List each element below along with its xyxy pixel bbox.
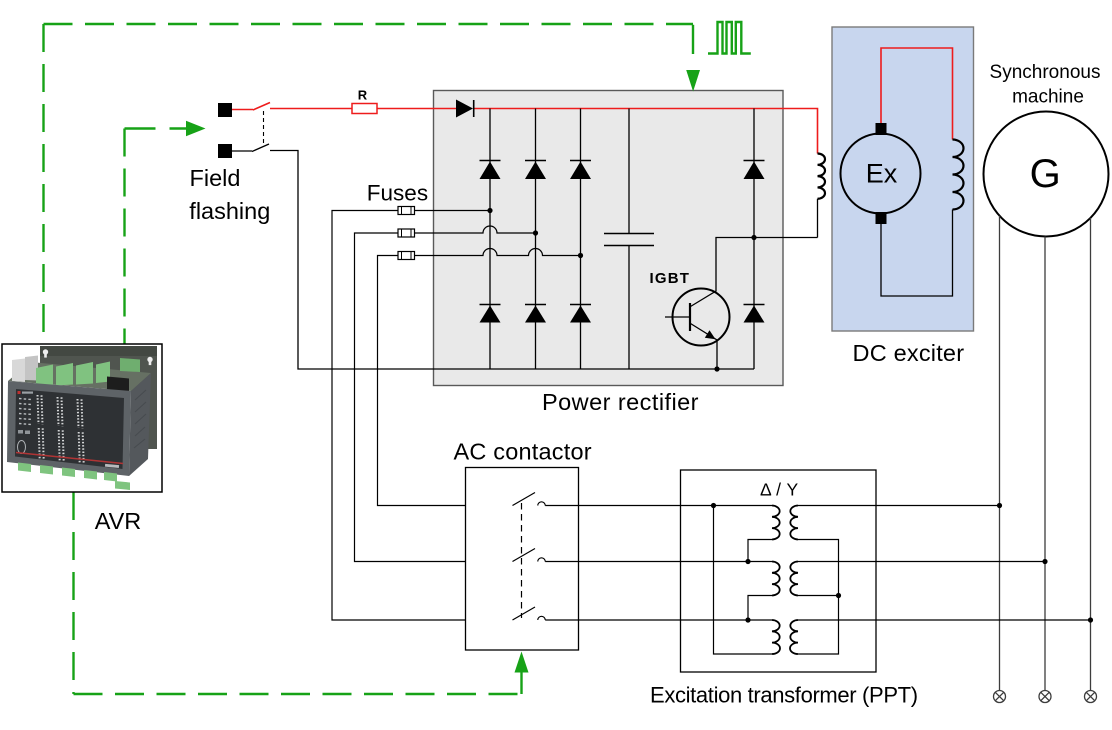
fuse 2 wire left down to contactor <box>355 233 513 562</box>
diode D0 on red bus <box>456 100 473 118</box>
generator G <box>984 112 1109 237</box>
rectifier leg 3 <box>580 109 582 370</box>
svg-text:Fuses: Fuses <box>367 181 428 206</box>
phase 3 wire <box>545 619 772 621</box>
node dot leg3 <box>578 253 583 258</box>
switch link dashed <box>263 111 265 143</box>
svg-text:Ex: Ex <box>866 159 898 189</box>
exciter machine Ex <box>841 134 921 214</box>
AVR device image <box>7 346 157 490</box>
node dot delta B <box>745 559 750 564</box>
red bus across rectifier to exciter coil <box>473 109 818 154</box>
svg-text:G: G <box>1030 152 1061 196</box>
fuse 3 wire right with hops <box>415 249 581 256</box>
phase 1 wire contactor to transformer <box>545 505 772 507</box>
leg1 bottom diode <box>480 305 501 323</box>
arrow to field flashing <box>186 121 206 137</box>
node dot phase1 <box>997 503 1002 508</box>
svg-text:Synchronous: Synchronous <box>990 62 1101 83</box>
wire: green dashed AVR bottom vertical <box>72 492 74 694</box>
wire to rectifier bottom bus <box>270 151 754 370</box>
wire red switch to resistor <box>270 108 352 110</box>
leg1 top diode <box>480 161 501 180</box>
stator line 1 <box>999 216 1001 691</box>
rectifier leg 2 <box>535 109 537 370</box>
rectifier leg 1 <box>489 109 491 370</box>
svg-text:R: R <box>358 88 368 103</box>
contactor switch 2 <box>513 549 546 562</box>
field flashing terminal top <box>218 103 232 117</box>
wire: green dashed AVR to field flashing vertical <box>123 129 125 345</box>
contactor link dashed <box>521 503 523 618</box>
field flashing terminal bottom <box>218 144 232 158</box>
arrow into rectifier <box>686 70 700 92</box>
node dot phase2 <box>1042 559 1047 564</box>
contactor switch 1 <box>513 493 546 506</box>
wire field flashing bottom <box>232 150 252 152</box>
phase 2 wire <box>545 561 772 563</box>
primary coil 2 <box>772 562 780 596</box>
wire coil to brush bottom <box>881 210 953 297</box>
primary2 to phase3 <box>748 596 772 621</box>
pulse waveform <box>708 22 751 54</box>
switch blade bottom <box>252 144 269 152</box>
primary coil 3 <box>772 620 780 654</box>
power rectifier box <box>434 91 784 386</box>
secondary2 to neutral <box>798 595 839 597</box>
leg3 top diode <box>570 161 591 180</box>
rectifier right leg <box>753 109 755 370</box>
svg-text:machine: machine <box>1012 87 1084 108</box>
node dot leg1 <box>487 208 492 213</box>
contactor switch 3 <box>513 607 546 620</box>
wye neutral wire <box>798 540 839 655</box>
delta closing wire <box>714 506 773 655</box>
exciter field coil <box>818 154 825 199</box>
node dot delta C <box>745 617 750 622</box>
svg-text:flashing: flashing <box>189 198 270 224</box>
wire: green dashed top horizontal <box>44 23 694 25</box>
exciter armature coil <box>953 140 964 210</box>
secondary coil 2 <box>790 562 798 596</box>
terminal symbol 2 <box>1039 691 1051 703</box>
fuse 1 wire left down to contactor <box>332 211 513 621</box>
brush top <box>876 123 887 135</box>
switch blade top (red) <box>253 103 270 111</box>
IGBT transistor <box>665 238 754 370</box>
brush bottom <box>876 212 887 224</box>
phase 2 wire transformer to machine <box>798 561 1045 563</box>
arrow into AC contactor <box>515 652 529 673</box>
svg-text:AVR: AVR <box>95 508 142 534</box>
wire: green dashed AVR top vertical <box>42 24 44 344</box>
wire red to switch <box>232 109 253 111</box>
svg-text:Power rectifier: Power rectifier <box>542 389 699 415</box>
node dot IGBT emitter on bus <box>714 366 719 371</box>
wire: green stub into rectifier <box>692 25 694 54</box>
secondary coil 1 <box>790 506 798 540</box>
wire coil bottom to return <box>817 199 819 238</box>
fuse 1 <box>398 207 415 215</box>
node dot delta A <box>711 503 716 508</box>
fuse 3 <box>398 252 415 260</box>
excitation transformer box <box>681 470 877 672</box>
red wire exciter armature <box>881 48 953 140</box>
leg3 bottom diode <box>570 305 591 323</box>
stator line 2 <box>1044 237 1046 691</box>
svg-text:Field: Field <box>190 165 241 191</box>
primary coil 1 <box>772 506 780 540</box>
svg-text:AC contactor: AC contactor <box>454 439 592 465</box>
resistor R <box>352 104 377 114</box>
capacitor C <box>604 109 654 370</box>
leg2 bottom diode <box>525 305 546 323</box>
terminal symbol 1 <box>994 691 1006 703</box>
fuse 2 <box>398 229 415 237</box>
phase 3 wire transformer to machine <box>798 619 1091 621</box>
phase 1 wire transformer to machine <box>798 505 1000 507</box>
wire: green dashed bottom horizontal <box>74 693 522 695</box>
wire red resistor to diode <box>377 108 456 110</box>
node dot phase3 <box>1088 617 1093 622</box>
secondary coil 3 <box>790 620 798 654</box>
svg-text:Excitation transformer (PPT): Excitation transformer (PPT) <box>650 682 918 707</box>
fuse 3 wire left down to contactor <box>378 256 513 506</box>
AC contactor box <box>466 468 579 651</box>
terminal symbol 3 <box>1085 691 1097 703</box>
right leg bottom diode <box>744 305 765 323</box>
node dot neutral <box>836 593 841 598</box>
stator line 3 <box>1090 218 1092 691</box>
wire rectifier to exciter field return <box>754 237 818 239</box>
svg-text:IGBT: IGBT <box>650 270 691 287</box>
node dot IGBT collector <box>751 235 756 240</box>
wire: green dashed horizontal to arrow <box>125 127 187 129</box>
right leg top diode <box>744 161 765 180</box>
primary1 to phase2 <box>748 540 772 562</box>
leg2 top diode <box>525 161 546 180</box>
fuse 2 wire right with hop <box>415 226 536 233</box>
wire: green stub into contactor <box>520 671 522 694</box>
node dot leg2 <box>533 230 538 235</box>
AVR box <box>2 344 162 492</box>
svg-text:DC exciter: DC exciter <box>853 340 965 366</box>
svg-text:Δ / Y: Δ / Y <box>760 480 799 500</box>
dc exciter box <box>832 27 974 331</box>
fuse 1 wire right <box>415 210 491 212</box>
